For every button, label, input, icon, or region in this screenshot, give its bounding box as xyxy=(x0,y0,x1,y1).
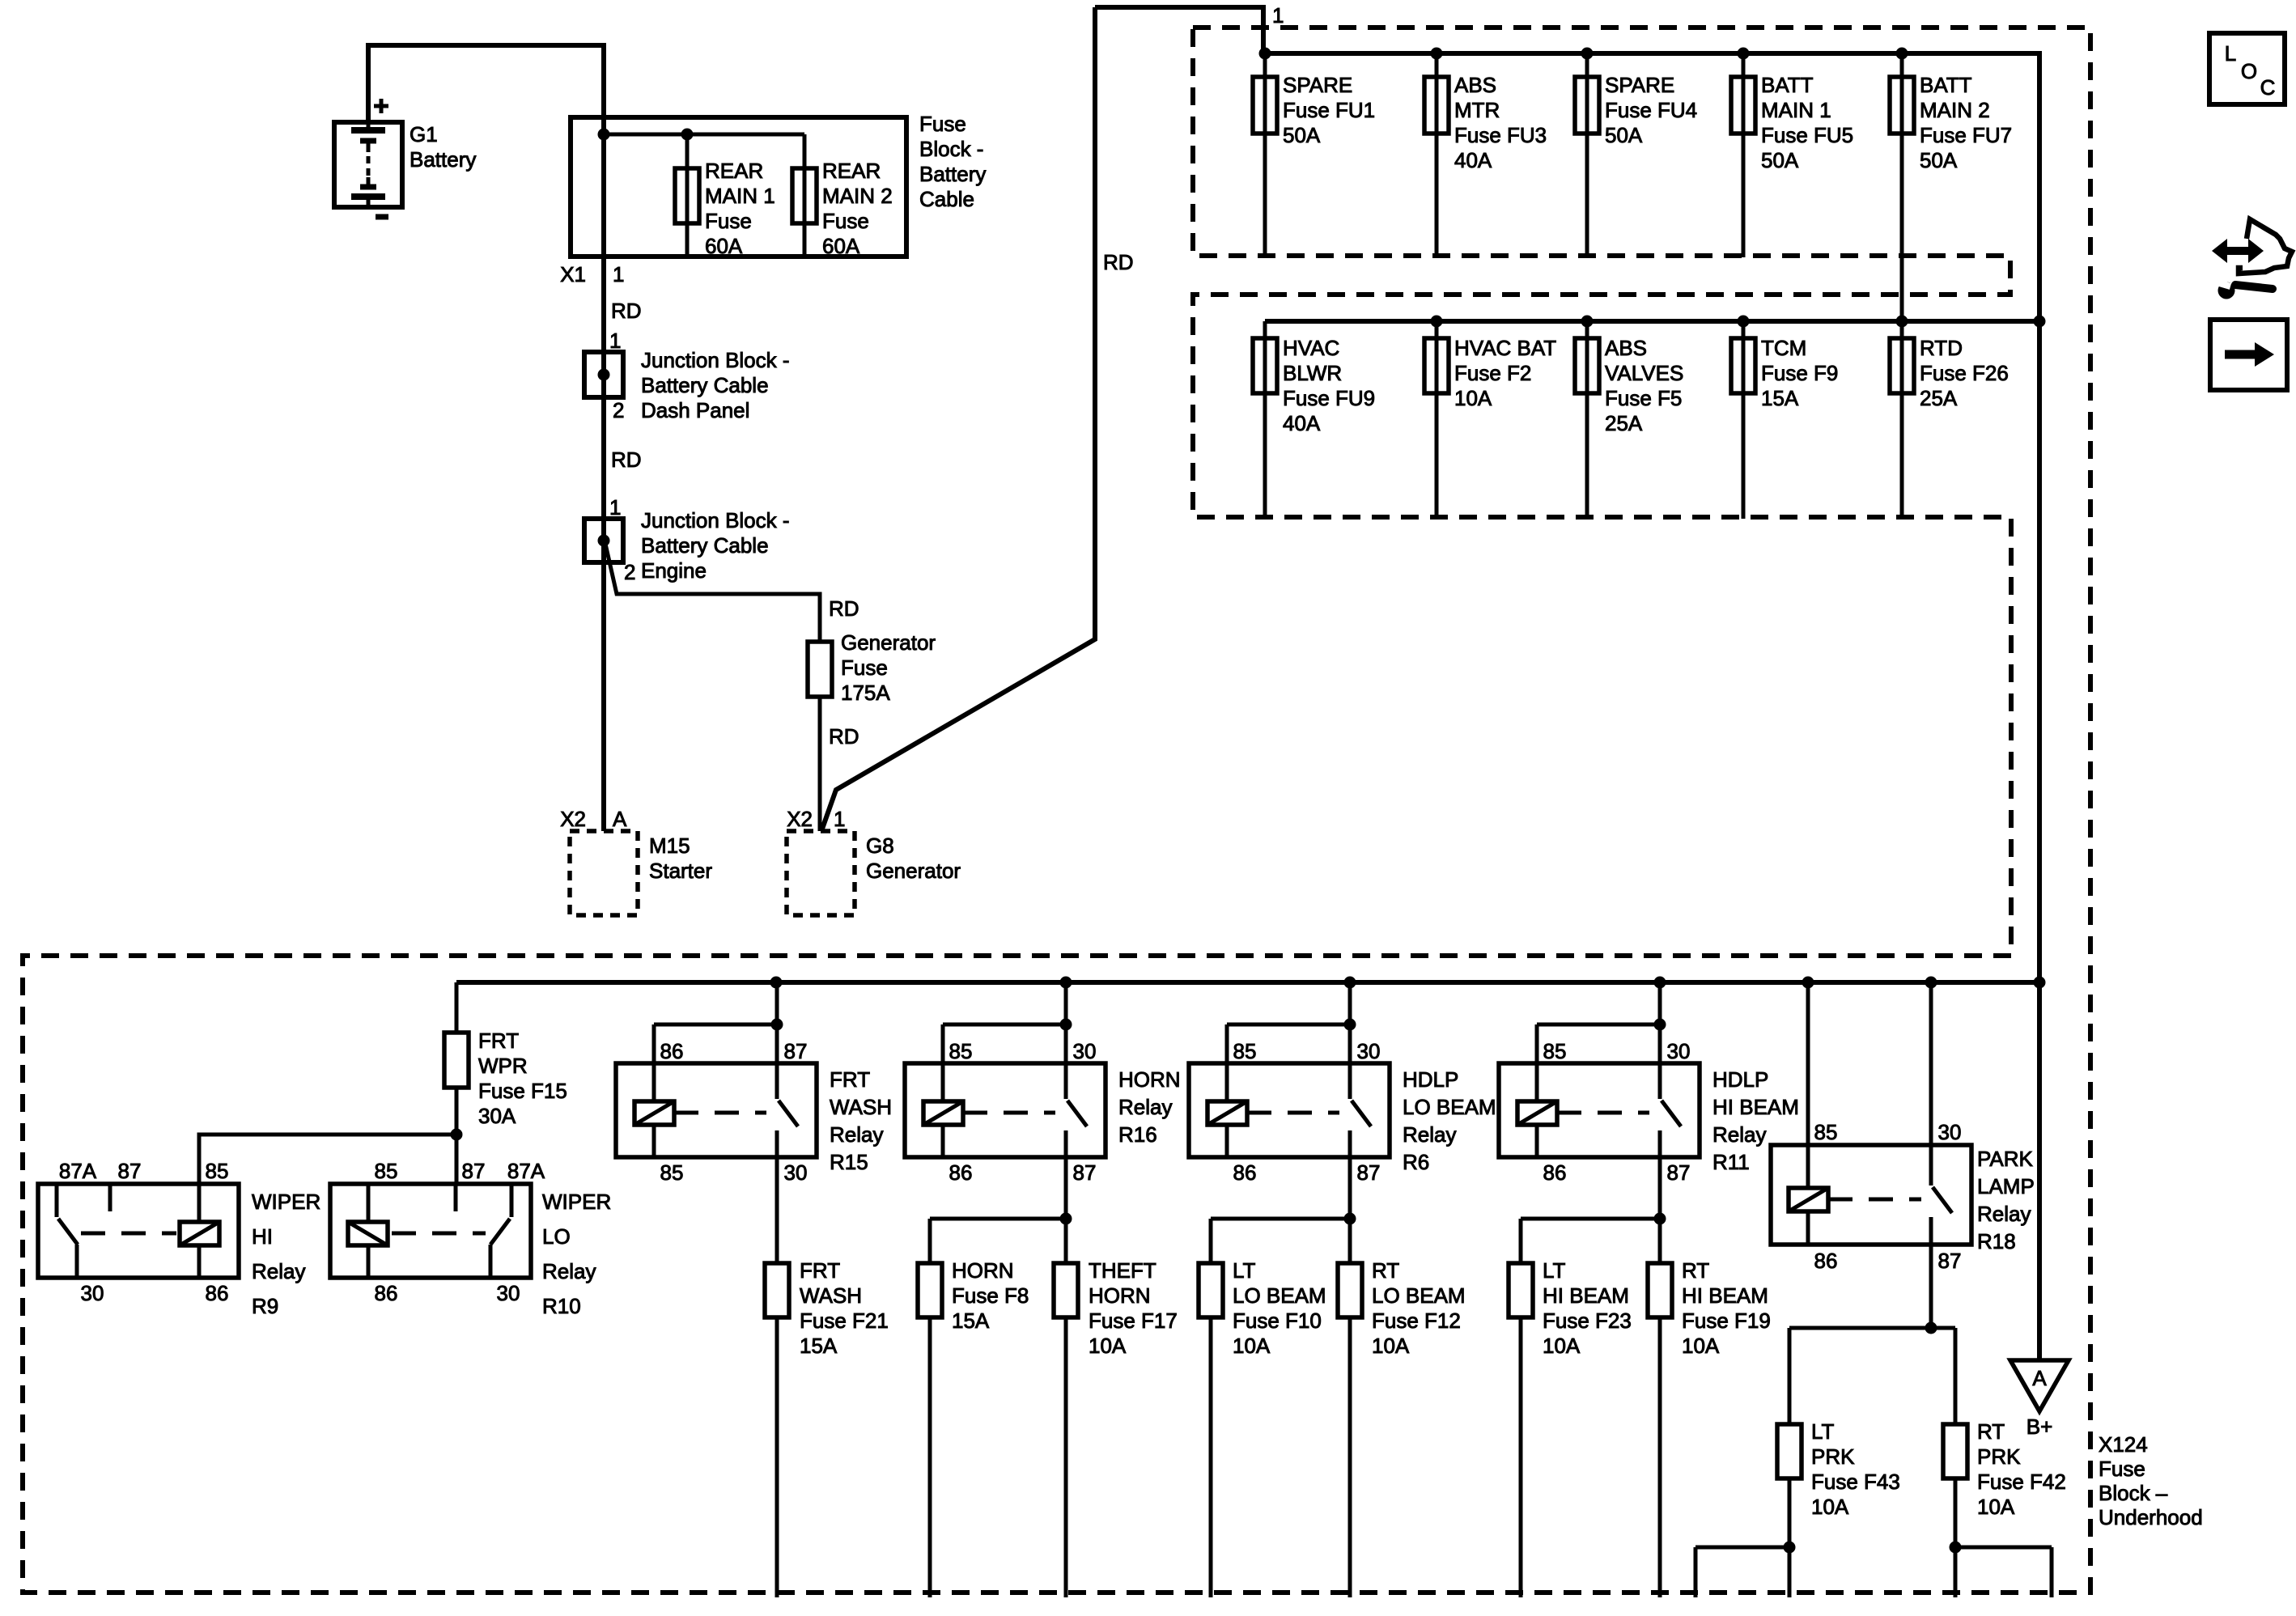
node BATT MAIN 1 FU5 bus tap xyxy=(1738,48,1750,60)
svg-text:R11: R11 xyxy=(1712,1150,1750,1174)
label R18 pin 86 xyxy=(1814,1249,1838,1273)
svg-text:LT: LT xyxy=(1543,1258,1566,1283)
node link corner FRT WASH R15 xyxy=(771,1019,783,1031)
svg-text:Cable: Cable xyxy=(919,187,974,211)
label Fuse Block - Battery Cable xyxy=(919,112,986,211)
fuse BATT MAIN 2 FU7 xyxy=(1890,77,1914,134)
label X124 Fuse Block - Underhood xyxy=(2099,1432,2203,1529)
svg-text:30: 30 xyxy=(1938,1120,1962,1144)
node SPARE FU4 bus tap xyxy=(1581,48,1594,60)
label REAR MAIN 1 Fuse 60A xyxy=(705,159,775,258)
label Generator Fuse 175A xyxy=(841,630,936,705)
svg-text:PARK: PARK xyxy=(1977,1147,2034,1171)
svg-text:85: 85 xyxy=(1814,1120,1838,1144)
fuse BATT MAIN 1 FU5 xyxy=(1731,77,1755,134)
fuse SPARE FU4 xyxy=(1575,77,1599,134)
svg-text:10A: 10A xyxy=(1372,1334,1410,1358)
svg-text:10A: 10A xyxy=(1089,1334,1127,1358)
fuse HVAC BAT F2 xyxy=(1424,338,1449,393)
svg-text:O: O xyxy=(2241,59,2257,83)
svg-text:10A: 10A xyxy=(1977,1495,2015,1519)
svg-text:HVAC BAT: HVAC BAT xyxy=(1454,336,1556,360)
fuse RTD F26 xyxy=(1890,338,1914,393)
label R18 pin 87 xyxy=(1938,1249,1962,1273)
label ABS MTR FU3 xyxy=(1454,73,1547,172)
label pin 2 junction block dash xyxy=(613,398,624,422)
relay PARK LAMP R18 xyxy=(1771,1145,1971,1245)
svg-text:Fuse F23: Fuse F23 xyxy=(1543,1308,1632,1333)
wire bus to park lamp relay pins xyxy=(1808,982,1931,1145)
svg-text:B+: B+ xyxy=(2027,1415,2053,1439)
wire BATT MAIN 1 FU5 column xyxy=(1742,53,1746,257)
label G1 Battery xyxy=(410,122,476,172)
node rear main 1 tap xyxy=(681,129,694,141)
svg-text:86: 86 xyxy=(949,1160,973,1185)
svg-text:86: 86 xyxy=(1543,1160,1567,1185)
node SPARE FU1 bus tap xyxy=(1259,48,1271,60)
wire inside fuse block to rear main fuses xyxy=(604,133,804,137)
label HDLP LO BEAM R6 pin 30 xyxy=(1357,1039,1381,1063)
node link corner HDLP HI BEAM R11 xyxy=(1654,1019,1666,1031)
svg-text:Fuse: Fuse xyxy=(822,209,869,233)
wire feed link relay HORN R16 xyxy=(943,982,1066,1063)
svg-text:85: 85 xyxy=(206,1159,229,1183)
wire label RD xyxy=(611,299,642,323)
node F42 output junction xyxy=(1950,1542,1962,1554)
label ABS VALVES F5 xyxy=(1605,336,1683,435)
label BATT MAIN 1 FU5 xyxy=(1761,73,1853,172)
svg-text:30: 30 xyxy=(1357,1039,1381,1063)
svg-text:Generator: Generator xyxy=(866,859,961,883)
node TCM F9 bus tap xyxy=(1738,316,1750,328)
svg-text:Underhood: Underhood xyxy=(2099,1505,2203,1529)
label RTD F26 xyxy=(1920,336,2009,410)
node feed junction xyxy=(598,129,610,141)
wire generator fuse to G8 xyxy=(818,697,822,831)
svg-text:85: 85 xyxy=(949,1039,973,1063)
wire feed link relay HDLP LO BEAM R6 xyxy=(1227,982,1350,1063)
svg-text:SPARE: SPARE xyxy=(1605,73,1674,97)
wire label RD vertical run xyxy=(1103,250,1134,274)
label pin 1 fuse block feed xyxy=(1272,3,1284,28)
label WIPER LO Relay R10 xyxy=(542,1190,611,1318)
node bus junction xyxy=(1654,977,1666,989)
wire row2 bus xyxy=(1265,319,2039,324)
label R9 pin 85 xyxy=(206,1159,229,1183)
relay HORN R16 xyxy=(905,1063,1106,1157)
svg-text:Relay: Relay xyxy=(1977,1202,2031,1226)
svg-text:Fuse F12: Fuse F12 xyxy=(1372,1308,1461,1333)
svg-text:87: 87 xyxy=(1073,1160,1097,1185)
svg-text:10A: 10A xyxy=(1682,1334,1720,1358)
wire rear main 1 branch xyxy=(685,134,690,257)
svg-text:BLWR: BLWR xyxy=(1283,361,1342,385)
svg-text:60A: 60A xyxy=(705,234,743,258)
svg-text:Fuse F17: Fuse F17 xyxy=(1089,1308,1178,1333)
node ABS VALVES F5 bus tap xyxy=(1581,316,1594,328)
svg-text:R15: R15 xyxy=(830,1150,868,1174)
svg-text:Relay: Relay xyxy=(1712,1122,1766,1147)
svg-text:Fuse F10: Fuse F10 xyxy=(1233,1308,1322,1333)
fuse RT LO BEAM F12 10A xyxy=(1338,1263,1362,1317)
svg-text:86: 86 xyxy=(1233,1160,1257,1185)
svg-text:85: 85 xyxy=(375,1159,398,1183)
node ABS MTR FU3 bus tap xyxy=(1431,48,1443,60)
node link corner HORN R16 xyxy=(1060,1019,1072,1031)
label Junction Block - Battery Cable Dash Panel xyxy=(641,348,790,422)
label LT LO BEAM Fuse F10 10A xyxy=(1233,1258,1326,1358)
label RT HI BEAM Fuse F19 10A xyxy=(1682,1258,1771,1358)
wire ABS VALVES F5 column xyxy=(1585,321,1589,519)
svg-text:BATT: BATT xyxy=(1761,73,1814,97)
label connector X2 pin A starter xyxy=(560,807,627,831)
fuse Generator 175A xyxy=(808,642,832,697)
svg-text:Fuse F19: Fuse F19 xyxy=(1682,1308,1771,1333)
label THEFT HORN Fuse F17 10A xyxy=(1089,1258,1178,1358)
svg-text:85: 85 xyxy=(660,1160,684,1185)
node RTD F26 bus tap xyxy=(1896,316,1908,328)
svg-text:30: 30 xyxy=(497,1281,520,1305)
fuse REAR MAIN 2 60A xyxy=(792,168,817,223)
svg-text:87: 87 xyxy=(1667,1160,1691,1185)
svg-text:87: 87 xyxy=(1938,1249,1962,1273)
svg-text:15A: 15A xyxy=(1761,386,1799,410)
svg-text:Fuse FU4: Fuse FU4 xyxy=(1605,98,1697,122)
label WIPER HI Relay R9 xyxy=(252,1190,320,1318)
fuse RT HI BEAM F19 10A xyxy=(1648,1263,1672,1317)
svg-text:87: 87 xyxy=(118,1159,142,1183)
svg-text:Relay: Relay xyxy=(252,1259,305,1283)
label R10 pin 85 xyxy=(375,1159,398,1183)
svg-text:HI BEAM: HI BEAM xyxy=(1543,1283,1629,1308)
node R6 output junction xyxy=(1344,1213,1356,1225)
wire HVAC BLWR FU9 column xyxy=(1263,321,1267,519)
fuse TCM F9 xyxy=(1731,338,1755,393)
svg-text:Relay: Relay xyxy=(830,1122,883,1147)
svg-text:2: 2 xyxy=(613,398,624,422)
node bus junction xyxy=(1802,977,1814,989)
relay HDLP LO BEAM R6 xyxy=(1189,1063,1390,1157)
label FRT WASH R15 name xyxy=(830,1067,892,1174)
wire SPARE FU1 column xyxy=(1263,53,1267,257)
label R9 pin 86 xyxy=(206,1281,229,1305)
svg-text:Fuse FU3: Fuse FU3 xyxy=(1454,123,1547,147)
svg-text:X2: X2 xyxy=(787,807,813,831)
svg-text:RT: RT xyxy=(1372,1258,1399,1283)
svg-text:40A: 40A xyxy=(1283,411,1321,435)
svg-text:X1: X1 xyxy=(560,262,586,286)
svg-text:HDLP: HDLP xyxy=(1712,1067,1768,1092)
svg-text:60A: 60A xyxy=(822,234,860,258)
wire label RD xyxy=(611,447,642,472)
svg-text:30: 30 xyxy=(1073,1039,1097,1063)
svg-text:Battery: Battery xyxy=(919,162,986,186)
fuse FRT WASH F21 15A xyxy=(765,1263,789,1317)
label HDLP HI BEAM R11 pin 30 xyxy=(1667,1039,1691,1063)
label SPARE FU4 xyxy=(1605,73,1697,147)
svg-text:175A: 175A xyxy=(841,681,890,705)
svg-text:85: 85 xyxy=(1543,1039,1567,1063)
node link corner HDLP LO BEAM R6 xyxy=(1344,1019,1356,1031)
svg-text:50A: 50A xyxy=(1761,148,1799,172)
svg-text:10A: 10A xyxy=(1233,1334,1271,1358)
svg-text:Relay: Relay xyxy=(1403,1122,1456,1147)
svg-text:HORN: HORN xyxy=(952,1258,1014,1283)
svg-text:FRT: FRT xyxy=(800,1258,840,1283)
label pin 1 junction block dash xyxy=(609,329,621,353)
wire R11 output branch xyxy=(1521,1157,1660,1597)
label PARK LAMP Relay R18 xyxy=(1977,1147,2035,1253)
svg-text:RD: RD xyxy=(611,299,642,323)
svg-text:PRK: PRK xyxy=(1977,1444,2021,1469)
wire SPARE FU4 column xyxy=(1585,53,1589,257)
svg-text:Junction Block -: Junction Block - xyxy=(641,348,790,372)
svg-text:Relay: Relay xyxy=(542,1259,596,1283)
relay WIPER HI R9 xyxy=(38,1184,239,1278)
svg-text:Battery: Battery xyxy=(410,147,476,172)
svg-text:LO: LO xyxy=(542,1224,571,1249)
svg-text:30: 30 xyxy=(81,1281,104,1305)
wire feed link relay HDLP HI BEAM R11 xyxy=(1537,982,1660,1063)
svg-text:Fuse F8: Fuse F8 xyxy=(952,1283,1029,1308)
svg-text:Fuse: Fuse xyxy=(841,655,888,680)
svg-text:RD: RD xyxy=(829,596,859,621)
wire HVAC BAT F2 column xyxy=(1435,321,1439,519)
icon LOC box xyxy=(2209,33,2285,104)
fuse LT PRK F43 10A xyxy=(1777,1424,1802,1478)
svg-text:Fuse F15: Fuse F15 xyxy=(478,1079,567,1103)
svg-text:Fuse F43: Fuse F43 xyxy=(1811,1470,1900,1494)
label R9 pin 87A xyxy=(59,1159,97,1183)
wire R15 output to FRT WASH fuse xyxy=(775,1157,779,1597)
wire underhood main bus xyxy=(456,980,2039,985)
svg-text:50A: 50A xyxy=(1283,123,1321,147)
svg-text:Fuse: Fuse xyxy=(919,112,966,136)
node bus junction xyxy=(770,977,783,989)
svg-text:HI BEAM: HI BEAM xyxy=(1682,1283,1768,1308)
svg-text:Fuse F9: Fuse F9 xyxy=(1761,361,1838,385)
wire BATT MAIN 2 FU7 column xyxy=(1900,53,1904,519)
svg-text:15A: 15A xyxy=(952,1308,990,1333)
svg-text:VALVES: VALVES xyxy=(1605,361,1683,385)
label HDLP LO BEAM R6 pin 85 xyxy=(1233,1039,1257,1063)
node R16 output junction xyxy=(1060,1213,1072,1225)
svg-text:10A: 10A xyxy=(1543,1334,1581,1358)
svg-text:25A: 25A xyxy=(1920,386,1958,410)
icon vehicle outline with double arrow and wrench xyxy=(2212,219,2292,299)
wire F15 output to wiper relays xyxy=(199,1135,456,1184)
svg-text:1: 1 xyxy=(609,495,621,520)
svg-text:LO BEAM: LO BEAM xyxy=(1403,1095,1496,1119)
label FRT WPR Fuse F15 30A xyxy=(478,1029,567,1128)
svg-text:A: A xyxy=(2032,1366,2047,1390)
svg-text:Block –: Block – xyxy=(2099,1481,2168,1505)
svg-text:BATT: BATT xyxy=(1920,73,1972,97)
svg-text:TCM: TCM xyxy=(1761,336,1806,360)
svg-text:PRK: PRK xyxy=(1811,1444,1855,1469)
svg-text:10A: 10A xyxy=(1454,386,1492,410)
wire R16 output branch xyxy=(930,1157,1066,1597)
svg-text:RD: RD xyxy=(829,724,859,749)
svg-text:Engine: Engine xyxy=(641,558,707,583)
label HDLP HI BEAM R11 pin 85 xyxy=(1543,1039,1567,1063)
label RT LO BEAM Fuse F12 10A xyxy=(1372,1258,1466,1358)
svg-text:LO BEAM: LO BEAM xyxy=(1372,1283,1466,1308)
svg-text:86: 86 xyxy=(660,1039,684,1063)
svg-text:ABS: ABS xyxy=(1605,336,1647,360)
relay FRT WASH R15 xyxy=(616,1063,817,1157)
label FRT WASH R15 pin 85 xyxy=(660,1160,684,1185)
svg-text:30: 30 xyxy=(784,1160,808,1185)
wire TCM F9 column xyxy=(1742,321,1746,519)
fuse LT LO BEAM F10 10A xyxy=(1199,1263,1223,1317)
label HDLP LO BEAM R6 pin 86 xyxy=(1233,1160,1257,1185)
svg-text:Battery Cable: Battery Cable xyxy=(641,373,769,397)
node R18 output junction xyxy=(1925,1322,1937,1334)
svg-text:RD: RD xyxy=(611,447,642,472)
node bus junction xyxy=(2034,977,2046,989)
svg-text:FRT: FRT xyxy=(478,1029,519,1053)
label R10 pin 30 xyxy=(497,1281,520,1305)
svg-text:WASH: WASH xyxy=(800,1283,862,1308)
wire RD diagonal from top right to generator xyxy=(821,7,1095,831)
svg-text:MTR: MTR xyxy=(1454,98,1500,122)
svg-text:10A: 10A xyxy=(1811,1495,1849,1519)
node bus junction xyxy=(1344,977,1356,989)
icon forward arrow box xyxy=(2210,320,2287,390)
svg-text:HI: HI xyxy=(252,1224,273,1249)
fuse SPARE FU1 xyxy=(1253,77,1277,134)
svg-text:HVAC: HVAC xyxy=(1283,336,1339,360)
svg-text:MAIN 1: MAIN 1 xyxy=(1761,98,1831,122)
svg-text:87A: 87A xyxy=(59,1159,97,1183)
svg-text:Fuse F42: Fuse F42 xyxy=(1977,1470,2066,1494)
battery G1 xyxy=(334,99,402,217)
svg-text:1: 1 xyxy=(609,329,621,353)
svg-text:LT: LT xyxy=(1233,1258,1256,1283)
svg-text:Starter: Starter xyxy=(649,859,712,883)
svg-text:1: 1 xyxy=(834,807,845,831)
label R10 pin 86 xyxy=(375,1281,398,1305)
label connector X1 pin 1 xyxy=(560,262,624,286)
svg-text:G1: G1 xyxy=(410,122,438,146)
label M15 Starter xyxy=(649,833,712,883)
svg-text:Fuse F21: Fuse F21 xyxy=(800,1308,889,1333)
fuse RT PRK F42 10A xyxy=(1943,1424,1967,1478)
label pin 2 junction block engine xyxy=(624,560,635,584)
svg-text:RT: RT xyxy=(1682,1258,1709,1283)
wire feed to underhood fuse block row 1 xyxy=(1095,7,1263,53)
fuse THEFT HORN F17 10A xyxy=(1054,1263,1078,1317)
svg-text:2: 2 xyxy=(624,560,635,584)
relay HDLP HI BEAM R11 xyxy=(1499,1063,1700,1157)
svg-text:G8: G8 xyxy=(866,833,894,858)
svg-text:50A: 50A xyxy=(1920,148,1958,172)
svg-text:MAIN 2: MAIN 2 xyxy=(822,184,893,208)
svg-text:WIPER: WIPER xyxy=(542,1190,611,1214)
wire feed link relay FRT WASH R15 xyxy=(654,982,777,1063)
svg-text:86: 86 xyxy=(1814,1249,1838,1273)
svg-text:M15: M15 xyxy=(649,833,690,858)
svg-text:MAIN 1: MAIN 1 xyxy=(705,184,775,208)
wire junction block engine to generator fuse xyxy=(605,544,820,642)
fuse block - battery cable box xyxy=(571,117,906,257)
label R18 pin 30 xyxy=(1938,1120,1962,1144)
fuse LT HI BEAM F23 10A xyxy=(1509,1263,1533,1317)
label HDLP HI BEAM R11 pin 86 xyxy=(1543,1160,1567,1185)
wire F43 output xyxy=(1695,1478,1789,1597)
svg-text:SPARE: SPARE xyxy=(1283,73,1352,97)
svg-text:RTD: RTD xyxy=(1920,336,1963,360)
svg-text:HORN: HORN xyxy=(1118,1067,1181,1092)
svg-text:L: L xyxy=(2225,41,2236,66)
label SPARE FU1 xyxy=(1283,73,1375,147)
label RT PRK Fuse F42 10A xyxy=(1977,1419,2066,1519)
svg-text:HORN: HORN xyxy=(1089,1283,1151,1308)
label HORN R16 pin 30 xyxy=(1073,1039,1097,1063)
label R10 pin 87 xyxy=(462,1159,486,1183)
label R9 pin 87 xyxy=(118,1159,142,1183)
node BATT MAIN 2 FU7 bus tap xyxy=(1896,48,1908,60)
label HORN Fuse F8 15A xyxy=(952,1258,1029,1333)
svg-text:Fuse FU5: Fuse FU5 xyxy=(1761,123,1853,147)
label G8 Generator xyxy=(866,833,961,883)
label HDLP LO BEAM R6 name xyxy=(1403,1067,1496,1174)
svg-text:87: 87 xyxy=(462,1159,486,1183)
svg-text:Fuse FU7: Fuse FU7 xyxy=(1920,123,2012,147)
svg-text:LO BEAM: LO BEAM xyxy=(1233,1283,1326,1308)
fuse ABS VALVES F5 xyxy=(1575,338,1599,393)
label FRT WASH R15 pin 86 xyxy=(660,1039,684,1063)
connector G8 generator dashed box xyxy=(787,831,855,915)
label HORN R16 pin 87 xyxy=(1073,1160,1097,1185)
svg-text:1: 1 xyxy=(1272,3,1284,28)
svg-text:REAR: REAR xyxy=(705,159,763,183)
node HVAC BAT F2 bus tap xyxy=(1431,316,1443,328)
svg-text:R6: R6 xyxy=(1403,1150,1429,1174)
label R9 pin 30 xyxy=(81,1281,104,1305)
svg-text:FRT: FRT xyxy=(830,1067,870,1092)
svg-text:Block -: Block - xyxy=(919,137,983,161)
node bus junction xyxy=(1060,977,1072,989)
label HDLP HI BEAM R11 pin 87 xyxy=(1667,1160,1691,1185)
svg-text:87: 87 xyxy=(1357,1160,1381,1185)
svg-text:Dash Panel: Dash Panel xyxy=(641,398,749,422)
svg-text:15A: 15A xyxy=(800,1334,838,1358)
svg-text:Fuse F2: Fuse F2 xyxy=(1454,361,1531,385)
svg-text:87A: 87A xyxy=(507,1159,545,1183)
label TCM F9 xyxy=(1761,336,1838,410)
svg-text:30A: 30A xyxy=(478,1104,516,1128)
wire row1 bus and right feed down to B+ xyxy=(1263,53,2039,1360)
svg-text:Fuse FU1: Fuse FU1 xyxy=(1283,98,1375,122)
svg-text:RD: RD xyxy=(1103,250,1134,274)
label FRT WASH R15 pin 87 xyxy=(784,1039,808,1063)
svg-text:50A: 50A xyxy=(1605,123,1643,147)
fuse FRT WPR F15 30A xyxy=(444,1033,469,1088)
svg-text:86: 86 xyxy=(206,1281,229,1305)
fuse REAR MAIN 1 60A xyxy=(675,168,699,223)
svg-text:A: A xyxy=(613,807,627,831)
svg-text:Fuse FU9: Fuse FU9 xyxy=(1283,386,1375,410)
label LT PRK Fuse F43 10A xyxy=(1811,1419,1900,1519)
label HDLP LO BEAM R6 pin 87 xyxy=(1357,1160,1381,1185)
svg-text:Fuse: Fuse xyxy=(705,209,752,233)
svg-text:Fuse F5: Fuse F5 xyxy=(1605,386,1682,410)
svg-text:MAIN 2: MAIN 2 xyxy=(1920,98,1990,122)
svg-text:LAMP: LAMP xyxy=(1977,1174,2035,1198)
node F15 output junction xyxy=(451,1129,463,1141)
